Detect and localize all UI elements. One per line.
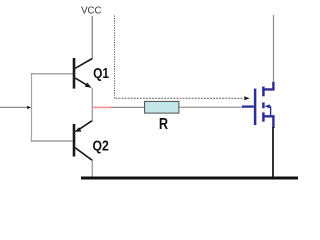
svg-text:Q2: Q2	[93, 138, 109, 155]
svg-text:VCC: VCC	[81, 6, 101, 17]
svg-text:Q1: Q1	[93, 65, 109, 82]
svg-text:R: R	[159, 116, 168, 133]
